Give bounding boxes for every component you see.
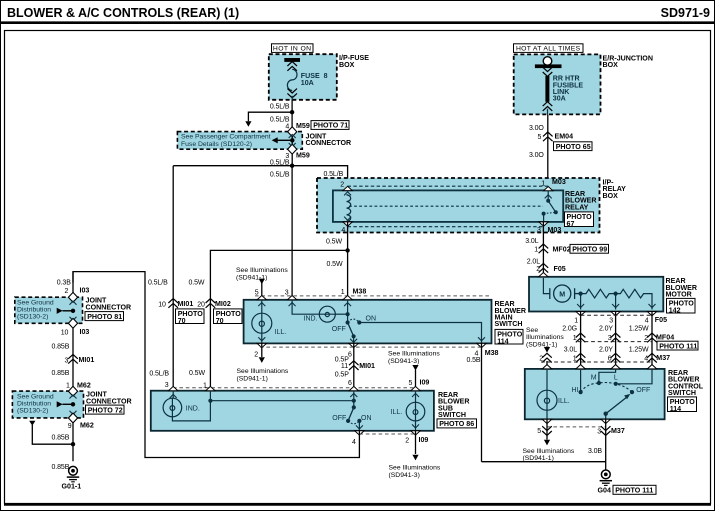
svg-text:(SD941-1): (SD941-1) (236, 274, 267, 281)
fusible link element (545, 76, 549, 102)
svg-text:1: 1 (573, 355, 577, 362)
svg-text:6: 6 (348, 380, 352, 387)
svg-text:OFF: OFF (636, 387, 650, 394)
resistor 2 (616, 289, 652, 309)
wire junction down to main switch pin 3 (291, 166, 293, 300)
ground G04 (600, 470, 612, 485)
relay coil arrow (344, 217, 351, 221)
svg-text:3.0L: 3.0L (525, 238, 538, 245)
fuse box (I/P-FUSE BOX) (269, 54, 337, 100)
svg-text:2: 2 (644, 335, 648, 342)
sub OFF contact (346, 419, 350, 423)
svg-text:See Ground: See Ground (17, 394, 54, 401)
svg-text:MF02: MF02 (553, 245, 571, 253)
illumination out arrow (544, 440, 550, 446)
svg-text:BLOWER & A/C CONTROLS (REAR) (: BLOWER & A/C CONTROLS (REAR) (1) (7, 6, 239, 20)
fuse F8 symbol (287, 62, 297, 100)
sub IND lamp (172, 391, 174, 399)
relay pin row dashed top (348, 185, 549, 187)
svg-text:HOT IN ON: HOT IN ON (273, 46, 312, 53)
fusible link bus bar (535, 64, 562, 68)
fusible link arrows down (543, 67, 553, 76)
ground distribution branch (29, 421, 35, 426)
wire to L contact (616, 369, 652, 384)
motor internal node 2 (614, 292, 618, 296)
svg-text:0.85B: 0.85B (52, 464, 70, 471)
svg-text:OFF: OFF (332, 415, 346, 422)
PHOTO reference box (565, 212, 594, 228)
svg-text:BOX: BOX (603, 61, 619, 69)
relay pin 1 arrow (544, 187, 553, 191)
fusible link terminal circle (543, 57, 552, 66)
svg-text:M38: M38 (485, 349, 499, 357)
svg-text:1: 1 (341, 289, 345, 296)
main pin row dashed bottom (260, 346, 482, 348)
PHOTO 72 reference box (86, 405, 125, 414)
sub switch pin 1 entry (206, 386, 215, 390)
svg-text:3: 3 (165, 382, 169, 389)
svg-text:G01-1: G01-1 (62, 482, 82, 490)
svg-text:M59: M59 (296, 122, 310, 130)
OFF contact (630, 390, 634, 394)
svg-text:2.0L: 2.0L (527, 258, 540, 265)
motor internal node 1 (579, 292, 583, 296)
arrow pin 5 wire (258, 303, 265, 307)
motor pin 3 F05 (611, 312, 620, 316)
control switch pin 6 entry (611, 365, 620, 369)
svg-text:1: 1 (573, 335, 577, 342)
connector M37 pin 1 (576, 353, 586, 362)
PHOTO 111 reference box (657, 341, 698, 350)
svg-text:MI01: MI01 (79, 356, 95, 364)
svg-text:3: 3 (597, 428, 601, 435)
sub switch box (151, 391, 434, 431)
svg-text:PHOTO 111: PHOTO 111 (615, 487, 653, 495)
PHOTO reference box (495, 329, 523, 345)
svg-text:HOT AT ALL TIMES: HOT AT ALL TIMES (516, 46, 581, 53)
svg-text:2: 2 (340, 181, 344, 188)
sub pole (353, 391, 355, 408)
motor box (529, 277, 663, 312)
connector MI01 pin 3 (68, 354, 78, 363)
control pin 3 wire to ground (605, 419, 607, 470)
svg-text:2: 2 (536, 266, 540, 273)
sub pin row dashed top (173, 387, 416, 389)
PHOTO 111 reference box (613, 485, 656, 494)
svg-text:M37: M37 (656, 354, 670, 362)
PHOTO 71 reference box (311, 121, 349, 130)
connector EM04 (543, 132, 553, 141)
sub switch pin 3 entry (169, 386, 178, 390)
svg-text:3: 3 (65, 357, 69, 364)
control selector dashed arc (581, 383, 632, 393)
connector M37 pin 6 (611, 353, 621, 362)
PHOTO reference box (668, 397, 697, 413)
ground G01-1 (67, 466, 79, 481)
svg-text:SWITCH: SWITCH (668, 389, 696, 397)
control switch pin 5 exit (542, 419, 551, 423)
wire to HI contact (580, 369, 582, 392)
svg-text:(SD941-3): (SD941-3) (389, 472, 420, 479)
svg-text:CONNECTOR: CONNECTOR (86, 398, 132, 406)
svg-text:I03: I03 (80, 328, 90, 336)
junction node (290, 110, 294, 114)
connector MF02 (539, 244, 549, 253)
L contact (614, 382, 618, 386)
blower motor (550, 285, 581, 302)
svg-text:RELAY: RELAY (565, 203, 589, 211)
stub branch left with arrow (248, 112, 292, 121)
connector MF04 pin 2 (647, 333, 657, 342)
svg-text:ON: ON (361, 415, 372, 422)
sub pin row dashed bottom (359, 433, 415, 435)
relay switch contact (547, 191, 549, 201)
svg-text:MI02: MI02 (215, 300, 231, 308)
illumination feed arrow into pin 5 (261, 283, 263, 300)
svg-text:4: 4 (645, 317, 649, 324)
svg-text:4: 4 (341, 227, 345, 234)
rear blower relay inner case (333, 190, 563, 222)
main lever (348, 323, 354, 337)
resistor 1 (581, 289, 616, 298)
motor pin 4 F05 (647, 312, 656, 316)
wire sub pin 4 to I03 (0.3B) (73, 272, 359, 458)
svg-text:142: 142 (669, 306, 681, 314)
sub switch pin 5 entry (411, 386, 420, 390)
wire fuse to junction (291, 100, 293, 127)
svg-text:2.0G: 2.0G (562, 325, 577, 332)
PHOTO 81 reference box (85, 312, 124, 321)
svg-text:M62: M62 (77, 381, 91, 389)
svg-text:0.5W: 0.5W (326, 238, 342, 245)
svg-text:20: 20 (197, 301, 205, 308)
sub pin1 wire (209, 391, 211, 401)
wire to M contact (599, 369, 616, 383)
svg-text:0.5L/B: 0.5L/B (324, 171, 344, 178)
svg-text:1.25W: 1.25W (629, 347, 649, 354)
wire relay pin 3 to motor (542, 222, 544, 277)
svg-text:M37: M37 (611, 427, 625, 435)
svg-text:IND.: IND. (186, 406, 200, 413)
sub switch pin 4 exit (355, 431, 364, 435)
svg-text:F05: F05 (554, 265, 566, 273)
svg-text:0.5L/B: 0.5L/B (270, 116, 290, 123)
svg-text:OFF: OFF (332, 326, 346, 333)
motor feed pin 2 F05 (539, 273, 548, 277)
svg-text:PHOTO 72: PHOTO 72 (88, 406, 123, 414)
svg-text:70: 70 (216, 317, 224, 325)
svg-text:10: 10 (158, 301, 166, 308)
svg-text:PHOTO 99: PHOTO 99 (572, 246, 607, 254)
svg-text:3: 3 (609, 317, 613, 324)
connector row F05 dashed (581, 314, 652, 316)
svg-text:PHOTO 86: PHOTO 86 (439, 420, 474, 428)
svg-text:1: 1 (541, 181, 545, 188)
wire 0.5L/B rail down to sub switch pin 3 (172, 166, 174, 391)
svg-text:70: 70 (178, 317, 186, 325)
M62 pin 1 diamond (68, 386, 77, 396)
svg-text:6: 6 (608, 355, 612, 362)
relay pin row dashed bottom (348, 226, 544, 228)
svg-text:0.85B: 0.85B (52, 370, 70, 377)
svg-text:SWITCH: SWITCH (438, 411, 466, 419)
svg-text:3: 3 (608, 335, 612, 342)
wire main switch pin4 to ground junction (482, 461, 606, 463)
svg-text:0.5W: 0.5W (327, 261, 343, 268)
M59 pin 4 diamond (288, 127, 297, 137)
main switch pin 2 exit (257, 343, 266, 347)
svg-text:0.5L/B: 0.5L/B (270, 172, 290, 179)
svg-text:I03: I03 (80, 287, 90, 295)
svg-text:1: 1 (203, 382, 207, 389)
control ILL lamp (546, 369, 548, 390)
svg-text:0.5P: 0.5P (335, 371, 349, 378)
main switch pin 3 entry (287, 296, 296, 300)
PHOTO reference box (214, 309, 243, 325)
svg-text:See Illuminations: See Illuminations (236, 267, 288, 274)
svg-text:114: 114 (670, 405, 681, 413)
svg-text:0.5W: 0.5W (189, 370, 205, 377)
svg-text:M62: M62 (80, 422, 94, 430)
svg-text:5: 5 (409, 380, 413, 387)
svg-text:10A: 10A (301, 79, 314, 87)
main IND lamp (292, 300, 319, 314)
PHOTO 99 reference box (570, 244, 609, 253)
HOT IN ON tag (272, 44, 314, 53)
PHOTO 86 reference box (437, 419, 477, 428)
svg-text:(SD130-2): (SD130-2) (17, 408, 48, 415)
relay pin 4 (343, 222, 352, 226)
control switch pin 4 entry (647, 365, 656, 369)
svg-text:0.5L/B: 0.5L/B (149, 370, 169, 377)
control switch box (525, 369, 665, 419)
sub ILL lamp (415, 391, 417, 403)
svg-text:3.0L: 3.0L (564, 347, 577, 354)
fusible link arrows up (543, 102, 553, 111)
svg-text:11: 11 (341, 363, 348, 370)
junction node relay pin4 (345, 248, 349, 252)
svg-text:5: 5 (538, 134, 542, 141)
svg-text:M38: M38 (353, 288, 367, 296)
svg-text:0.5L/B: 0.5L/B (148, 280, 168, 287)
PHOTO reference box (176, 309, 205, 325)
control pin 5 wire (546, 419, 548, 439)
svg-text:1: 1 (66, 383, 70, 390)
svg-text:EM04: EM04 (555, 132, 574, 140)
control switch pin 2 entry (542, 365, 551, 369)
svg-text:PHOTO 71: PHOTO 71 (313, 122, 348, 130)
wire main pin 6 to sub pin 6 (353, 343, 355, 390)
PHOTO 65 reference box (554, 142, 593, 151)
svg-text:0.5L/B: 0.5L/B (270, 160, 290, 167)
relay linkage dashed (349, 205, 543, 207)
svg-text:3.0O: 3.0O (529, 152, 544, 159)
sub pin 2 illumination out (415, 431, 417, 454)
wire fusible link to relay pin 1 (547, 114, 549, 190)
svg-text:PHOTO 111: PHOTO 111 (659, 342, 697, 350)
svg-text:9: 9 (68, 423, 72, 430)
control pin row dashed bottom (547, 426, 606, 428)
illumination feed arrow into M37 pin 2 (544, 347, 550, 353)
svg-text:1: 1 (574, 317, 578, 324)
HOT AT ALL TIMES tag (514, 44, 584, 53)
joint connector I03 box (15, 297, 83, 323)
svg-text:2.0Y: 2.0Y (599, 347, 613, 354)
svg-text:MOTOR: MOTOR (666, 291, 692, 299)
svg-text:CONNECTOR: CONNECTOR (306, 139, 352, 147)
connector F05 pin 2 (539, 263, 549, 272)
wire relay pin 4 to junction (347, 222, 349, 250)
main ON wire to pin 4 (359, 323, 481, 344)
svg-text:2: 2 (65, 288, 69, 295)
control switch pin 3 exit (601, 419, 610, 423)
svg-text:M: M (591, 375, 597, 382)
I03 pin 2 diamond (68, 292, 77, 302)
main switch pole (347, 300, 349, 323)
wire junction to relay pin 2 (292, 166, 348, 186)
svg-text:ON: ON (366, 316, 377, 323)
svg-text:See Illuminations: See Illuminations (237, 368, 289, 375)
main pin 2 illumination out (261, 343, 263, 357)
svg-text:1: 1 (534, 247, 538, 254)
svg-text:L: L (614, 375, 618, 382)
svg-text:Fuse Details (SD120-2): Fuse Details (SD120-2) (181, 141, 252, 148)
svg-text:See Illuminations: See Illuminations (388, 351, 440, 358)
svg-text:I09: I09 (420, 379, 430, 387)
svg-text:67: 67 (567, 220, 575, 228)
svg-text:5: 5 (537, 428, 541, 435)
svg-text:0.5B: 0.5B (467, 357, 481, 364)
svg-text:M59: M59 (296, 152, 310, 160)
svg-text:ILL.: ILL. (391, 409, 403, 416)
I03 pin 10 diamond (70, 317, 77, 321)
relay box outer (317, 178, 600, 233)
wire junction to MI02 rail (210, 250, 347, 390)
relay pin 2 (343, 186, 352, 190)
sub ON contact (357, 419, 361, 423)
svg-text:See Ground: See Ground (17, 300, 54, 307)
arrow pin 3 wire (289, 303, 296, 307)
relay pin 3 (539, 222, 548, 226)
control lever with arrow (606, 398, 627, 414)
wire I03 chain (72, 272, 74, 462)
svg-text:M03: M03 (548, 226, 562, 234)
E/R junction box (514, 54, 601, 114)
M59 see-fuse-details box (177, 132, 302, 150)
sub switch pin 6 entry (349, 386, 358, 390)
svg-text:0.5L/B: 0.5L/B (270, 104, 290, 111)
svg-text:0.3B: 0.3B (57, 280, 71, 287)
connector M37 pin 2 (illumination) (542, 353, 552, 362)
svg-text:BOX: BOX (339, 61, 355, 69)
svg-text:PHOTO 81: PHOTO 81 (87, 313, 122, 321)
svg-text:2: 2 (405, 437, 409, 444)
svg-text:3.0B: 3.0B (588, 448, 602, 455)
svg-text:I09: I09 (419, 436, 429, 444)
I03 node with arrow (71, 309, 75, 313)
svg-text:SD971-9: SD971-9 (661, 6, 710, 20)
main switch pin 6 exit (349, 343, 358, 347)
svg-text:2: 2 (539, 356, 543, 363)
svg-text:ILL.: ILL. (275, 329, 287, 336)
svg-text:F05: F05 (655, 316, 667, 324)
sub IND loop to pin 1 wire (172, 401, 210, 421)
connector MI01 pin 10 (168, 299, 178, 308)
svg-text:3: 3 (537, 227, 541, 234)
svg-text:(SD941-1): (SD941-1) (526, 341, 557, 348)
main switch pin 4 exit (477, 343, 486, 347)
connector M37 pin 4 (647, 353, 657, 362)
svg-text:See: See (526, 327, 538, 334)
svg-text:SWITCH: SWITCH (495, 320, 523, 328)
svg-text:PHOTO 65: PHOTO 65 (556, 143, 591, 151)
title separator line (0, 21, 715, 24)
svg-text:3.0O: 3.0O (529, 125, 544, 132)
connector row M37 dashed (541, 361, 652, 363)
svg-text:4: 4 (644, 355, 648, 362)
svg-text:(SD941-1): (SD941-1) (523, 455, 554, 462)
wire M37 pin2 into control switch (546, 361, 548, 390)
sub selector dashed arc (348, 421, 359, 424)
junction node M59 out (290, 164, 294, 168)
M59 node with arrow (290, 138, 294, 142)
motor pin 1 F05 (576, 312, 585, 316)
svg-text:0.85B: 0.85B (52, 434, 70, 441)
svg-text:Distribution: Distribution (17, 401, 51, 408)
M contact (597, 381, 601, 385)
svg-text:HI: HI (572, 387, 579, 394)
svg-text:IND.: IND. (304, 316, 318, 323)
main ILL lamp (261, 300, 263, 313)
arrow pin 3 wire (170, 394, 177, 398)
svg-text:CONNECTOR: CONNECTOR (86, 304, 132, 312)
svg-text:See Passenger Compartment: See Passenger Compartment (181, 134, 271, 141)
svg-text:0.85B: 0.85B (52, 343, 70, 350)
svg-text:G04: G04 (598, 486, 611, 494)
fuse F8 bus bar (284, 58, 300, 62)
HI contact (579, 390, 583, 394)
main switch pin 5 entry (257, 296, 266, 300)
svg-text:MI01: MI01 (359, 362, 375, 370)
sub lever (348, 407, 354, 421)
svg-text:4: 4 (285, 123, 289, 130)
svg-text:ILL.: ILL. (558, 398, 570, 405)
arrow pin 1 wire (344, 303, 351, 307)
svg-text:See Illuminations: See Illuminations (389, 465, 441, 472)
main pin row dashed top (255, 295, 491, 297)
svg-text:BOX: BOX (603, 192, 619, 200)
connector MI02 pin 20 (206, 299, 216, 308)
sub switch pin 2 exit (411, 431, 420, 435)
relay coil (347, 195, 351, 222)
connector row MF04 dashed (578, 341, 652, 343)
connector MF04 pin 3 (611, 333, 621, 342)
M62 node with arrow (71, 402, 75, 406)
svg-text:(SD130-2): (SD130-2) (17, 314, 48, 321)
svg-text:Distribution: Distribution (17, 307, 51, 314)
svg-text:30A: 30A (553, 95, 566, 103)
M59 pin 3 diamond (289, 143, 296, 147)
svg-text:2: 2 (254, 351, 258, 358)
svg-text:M: M (559, 290, 565, 298)
wire through M59 (291, 127, 293, 166)
main selector dashed arc (348, 319, 360, 322)
svg-text:0.5W: 0.5W (189, 280, 205, 287)
svg-text:MF04: MF04 (656, 334, 674, 342)
svg-text:114: 114 (497, 337, 508, 345)
wire junction down to main switch pin 1 (347, 250, 349, 299)
connector MI01 pin 11 (349, 361, 359, 370)
